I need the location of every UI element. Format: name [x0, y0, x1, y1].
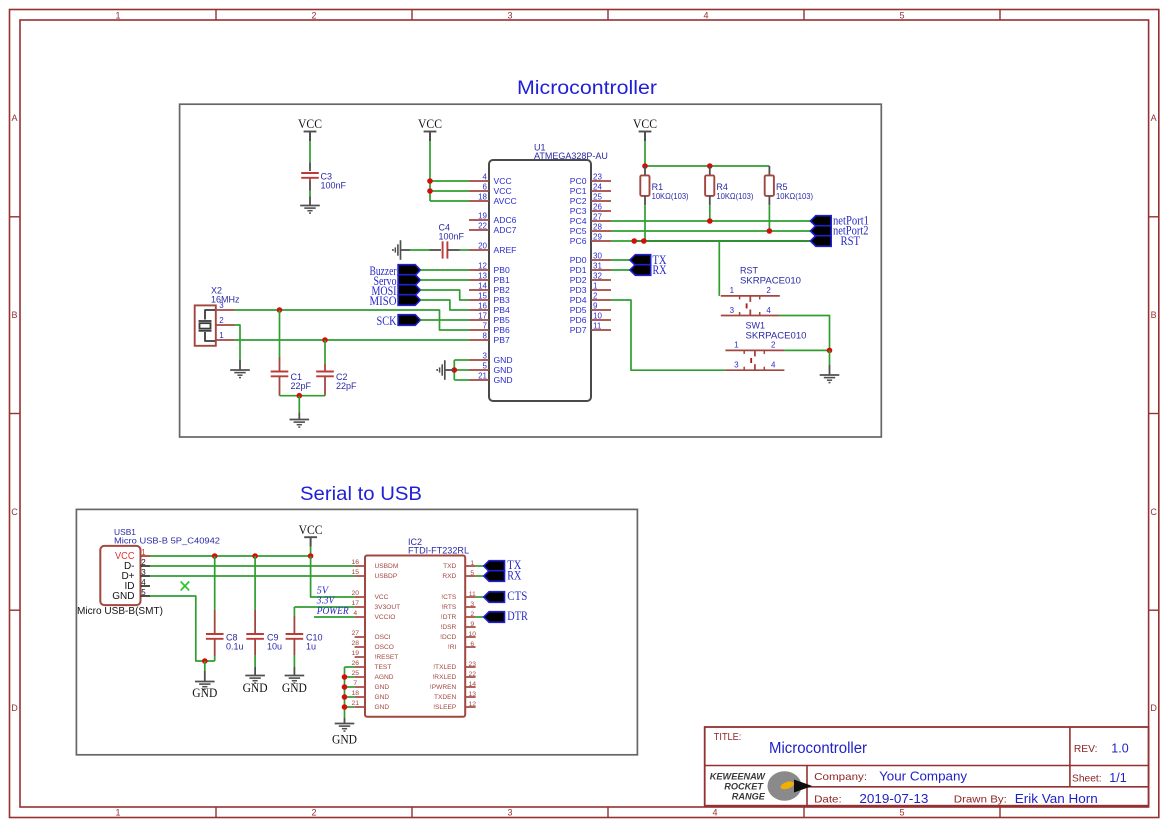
svg-text:KEWEENAW: KEWEENAW [710, 772, 766, 782]
svg-text:5: 5 [470, 570, 474, 577]
pin 21 GND of U1 [469, 379, 489, 381]
svg-text:VCC: VCC [494, 186, 512, 196]
wire SCK to PB5 [420, 319, 469, 321]
wire VCC to R1/R4/R5 tops [644, 141, 646, 166]
pin 9 !DSR of IC2 [465, 626, 475, 628]
wire Buzzer to PB0 [420, 269, 469, 271]
svg-text:10: 10 [469, 631, 477, 638]
svg-text:5: 5 [899, 808, 904, 818]
svg-text:2: 2 [470, 611, 474, 618]
pin 25 AGND of IC2 [355, 676, 365, 678]
svg-text:5: 5 [899, 10, 904, 20]
svg-text:AREF: AREF [494, 245, 517, 255]
svg-text:TXD: TXD [443, 563, 456, 570]
svg-text:FTDI-FT232RL: FTDI-FT232RL [408, 545, 469, 555]
node junction AGND [342, 674, 348, 680]
svg-text:22pF: 22pF [291, 381, 312, 391]
svg-text:3: 3 [734, 361, 739, 370]
svg-text:15: 15 [352, 569, 360, 576]
svg-text:2: 2 [766, 286, 771, 295]
svg-text:D: D [1150, 703, 1157, 713]
wire VCC to U1 VCC/AVCC pins [429, 141, 431, 201]
svg-text:2: 2 [311, 808, 316, 818]
pin 15 PB3 of U1 [469, 299, 489, 301]
node junction SW1-RST ground [827, 348, 833, 354]
svg-text:RXD: RXD [442, 573, 456, 580]
svg-text:27: 27 [593, 213, 602, 222]
svg-text:PD5: PD5 [570, 305, 587, 315]
svg-text:30: 30 [593, 252, 602, 261]
pin 2 !DTR of IC2 [465, 616, 475, 618]
pin 27 OSCI of IC2 [355, 636, 365, 638]
node junction C9 top [252, 553, 258, 559]
node junction R4 top [707, 163, 713, 169]
svg-text:15: 15 [478, 292, 487, 301]
svg-text:7: 7 [483, 322, 488, 331]
pin 29 PC6 of U1 [591, 240, 611, 242]
pin 5 GND of USB1 [141, 595, 151, 597]
net flag DTR [484, 612, 505, 623]
svg-text:!PWREN: !PWREN [430, 684, 457, 691]
svg-text:POWER: POWER [316, 605, 349, 617]
svg-text:TXDEN: TXDEN [434, 694, 457, 701]
wire ground stub below C8 [204, 661, 206, 671]
pin 3 !RTS of IC2 [465, 606, 475, 608]
svg-text:21: 21 [478, 372, 487, 381]
pin 2 D- of USB1 [141, 565, 151, 567]
wire U1 GND pins to ground [453, 360, 455, 380]
wire !CTS to CTS flag [476, 596, 484, 598]
ground (U1 GND pins) [444, 360, 446, 380]
wire VCC to FT232 VCC pin (5V net) [311, 556, 355, 597]
svg-text:!RXLED: !RXLED [432, 674, 456, 681]
svg-text:!SLEEP: !SLEEP [433, 704, 457, 711]
svg-text:7: 7 [353, 680, 357, 687]
wire POWER net stub to VCCIO [314, 616, 355, 618]
pin 5 GND of U1 [469, 369, 489, 371]
net flag RX (U1) [630, 265, 651, 276]
svg-text:CTS: CTS [507, 588, 527, 603]
svg-text:GND: GND [375, 704, 390, 711]
svg-text:1: 1 [593, 282, 598, 291]
net flag RST [810, 236, 831, 247]
svg-text:DTR: DTR [507, 608, 528, 623]
svg-text:PB6: PB6 [494, 325, 510, 335]
svg-text:PC3: PC3 [570, 206, 587, 216]
svg-text:MISO: MISO [370, 294, 397, 308]
wire VCC to C3 [309, 141, 311, 163]
svg-text:VCC: VCC [418, 117, 442, 131]
svg-text:PD0: PD0 [570, 255, 587, 265]
pin 19 ADC6 of U1 [469, 219, 489, 221]
svg-text:3V3OUT: 3V3OUT [375, 604, 401, 611]
svg-text:22: 22 [469, 671, 477, 678]
svg-text:ADC6: ADC6 [494, 215, 517, 225]
svg-text:20: 20 [478, 242, 487, 251]
svg-text:12: 12 [469, 701, 477, 708]
svg-text:VCC: VCC [494, 176, 512, 186]
svg-text:Date:: Date: [814, 794, 842, 806]
pin 20 VCC of IC2 [355, 596, 365, 598]
svg-text:SCK: SCK [377, 314, 397, 328]
svg-text:AGND: AGND [375, 674, 394, 681]
svg-text:11: 11 [469, 591, 476, 598]
pin 12 PB0 of U1 [469, 269, 489, 271]
svg-text:23: 23 [593, 173, 602, 182]
pin 1 VCC of USB1 [141, 555, 151, 557]
svg-text:3: 3 [470, 601, 474, 608]
wire IC2 ground trunk [344, 667, 346, 718]
pin 1 of X2 [216, 339, 235, 341]
wire USB VCC rail [150, 555, 311, 557]
svg-text:18: 18 [352, 690, 360, 697]
wire MOSI to PB3 [420, 290, 469, 300]
svg-text:26: 26 [593, 203, 602, 212]
svg-text:2: 2 [219, 316, 224, 325]
wire C4 to AREF pin [447, 249, 460, 251]
svg-text:Microcontroller: Microcontroller [769, 740, 867, 757]
svg-text:22: 22 [478, 222, 487, 231]
svg-text:22pF: 22pF [336, 381, 357, 391]
svg-text:TITLE:: TITLE: [714, 732, 742, 743]
svg-text:PB0: PB0 [494, 265, 510, 275]
svg-text:SKRPACE010: SKRPACE010 [746, 330, 807, 340]
pin 18 GND of IC2 [355, 696, 365, 698]
svg-text:A: A [1151, 113, 1157, 123]
net flag netPort2 [810, 226, 831, 237]
svg-text:1: 1 [115, 808, 120, 818]
svg-text:PB2: PB2 [494, 285, 510, 295]
svg-text:3: 3 [483, 352, 488, 361]
svg-text:4: 4 [703, 10, 708, 20]
svg-text:PC0: PC0 [570, 176, 587, 186]
pin 2 of X2 [216, 324, 235, 326]
pin 19 !RESET of IC2 [355, 656, 365, 658]
wire PD1 to RX flag [611, 269, 630, 271]
pin 1 TXD of IC2 [465, 565, 475, 567]
svg-text:4: 4 [712, 808, 717, 818]
pin 22 ADC7 of U1 [469, 229, 489, 231]
svg-text:6: 6 [483, 183, 488, 192]
wire PC5 to netPort2 [611, 230, 810, 232]
node junction GND pin21 [342, 704, 348, 710]
wire D- to USBDM [150, 565, 355, 567]
pin 14 !PWREN of IC2 [465, 686, 475, 688]
svg-text:PB4: PB4 [494, 305, 510, 315]
wire X2 pin3 to PB6 (XTAL1 net) [235, 310, 470, 330]
svg-text:25: 25 [352, 670, 360, 677]
svg-text:VCC: VCC [298, 117, 322, 131]
svg-text:TEST: TEST [375, 664, 392, 671]
wire PC6 to RST flag [611, 240, 634, 242]
node junction VCC drop [308, 553, 314, 559]
svg-text:4: 4 [771, 361, 776, 370]
svg-text:PD7: PD7 [570, 325, 587, 335]
svg-text:23: 23 [469, 661, 477, 668]
svg-text:3: 3 [507, 808, 512, 818]
svg-text:10KΩ(103): 10KΩ(103) [716, 192, 753, 201]
pin 4 VCC of U1 [469, 180, 489, 182]
svg-text:B: B [1151, 310, 1157, 320]
svg-text:VCC: VCC [375, 594, 389, 601]
node junction VCC pin6 [427, 188, 433, 194]
pin 11 PD7 of U1 [591, 329, 611, 331]
svg-text:Your Company: Your Company [879, 770, 968, 784]
svg-text:!RI: !RI [448, 644, 457, 651]
svg-text:10KΩ(103): 10KΩ(103) [776, 192, 813, 201]
svg-text:100nF: 100nF [321, 181, 347, 191]
svg-text:10KΩ(103): 10KΩ(103) [652, 192, 689, 201]
svg-text:GND: GND [494, 355, 513, 365]
svg-text:!RTS: !RTS [441, 604, 457, 611]
wire C3 to ground [309, 191, 311, 197]
svg-text:10: 10 [593, 312, 602, 321]
svg-text:A: A [11, 113, 17, 123]
svg-text:USBDP: USBDP [375, 573, 398, 580]
node junction C1-C2 ground [297, 393, 303, 399]
svg-text:RST: RST [841, 234, 861, 248]
svg-text:RX: RX [653, 263, 667, 277]
pin 20 AREF of U1 [469, 249, 489, 251]
svg-text:!RESET: !RESET [375, 654, 399, 661]
pin 3 D+ of USB1 [141, 575, 151, 577]
pin 8 PB7 of U1 [469, 339, 489, 341]
svg-text:RST: RST [740, 266, 759, 276]
ground (C10) [285, 675, 305, 677]
node junction XTAL1 at C1 [277, 307, 283, 313]
svg-text:!DTR: !DTR [441, 614, 457, 621]
net flag CTS [484, 592, 505, 603]
svg-text:16MHz: 16MHz [211, 295, 240, 305]
svg-text:19: 19 [478, 212, 487, 221]
svg-text:25: 25 [593, 193, 602, 202]
pin 18 AVCC of U1 [469, 200, 489, 202]
svg-text:2019-07-13: 2019-07-13 [859, 792, 928, 806]
pin 9 PD5 of U1 [591, 309, 611, 311]
section box: Serial to USB [76, 509, 637, 754]
ground (AREF) [400, 240, 402, 260]
wire !DTR to DTR flag [476, 616, 484, 618]
svg-text:PD6: PD6 [570, 315, 587, 325]
svg-text:PB5: PB5 [494, 315, 510, 325]
ground (below C3) [300, 205, 320, 207]
svg-text:GND: GND [192, 686, 217, 700]
ground (X2 case) [230, 369, 250, 371]
pin 14 PB2 of U1 [469, 289, 489, 291]
svg-text:GND: GND [494, 365, 513, 375]
pin 3 GND of U1 [469, 359, 489, 361]
svg-text:PC2: PC2 [570, 196, 587, 206]
node junction PC6 b [641, 238, 647, 244]
svg-text:21: 21 [352, 700, 360, 707]
pin 11 !CTS of IC2 [465, 596, 475, 598]
svg-text:28: 28 [593, 223, 602, 232]
svg-text:GND: GND [282, 681, 307, 695]
capacitor C2 22pF [324, 340, 326, 364]
wire PD0 to TX flag [611, 259, 630, 261]
no-connect X on ID pin [181, 582, 190, 591]
svg-text:11: 11 [593, 322, 602, 331]
pin 28 PC5 of U1 [591, 230, 611, 232]
svg-text:AVCC: AVCC [494, 196, 517, 206]
resistor R4 10K [709, 166, 711, 175]
svg-text:32: 32 [593, 272, 602, 281]
svg-text:Erik Van Horn: Erik Van Horn [1015, 792, 1098, 806]
wire X2 pin1 to PB7 (XTAL2 net) [235, 339, 470, 341]
wire MISO to PB4 [420, 300, 469, 310]
pin 4 VCCIO of IC2 [355, 616, 365, 618]
svg-text:OSCI: OSCI [375, 634, 391, 641]
svg-text:PD3: PD3 [570, 285, 587, 295]
svg-text:9: 9 [593, 302, 598, 311]
svg-text:1u: 1u [306, 642, 316, 652]
svg-text:GND: GND [112, 591, 134, 602]
wire R4 to PC4 net [709, 205, 711, 221]
ground (C9) [245, 675, 265, 677]
pin 27 PC4 of U1 [591, 220, 611, 222]
svg-text:8: 8 [483, 332, 488, 341]
pin 13 TXDEN of IC2 [465, 696, 475, 698]
svg-text:R1: R1 [652, 182, 664, 192]
wire RXD to RX flag [476, 575, 484, 577]
svg-text:SW1: SW1 [746, 321, 766, 331]
svg-text:26: 26 [352, 660, 360, 667]
ground (SW1) [820, 374, 840, 376]
pin 28 OSCO of IC2 [355, 646, 365, 648]
svg-text:GND: GND [332, 733, 357, 747]
svg-text:14: 14 [469, 681, 477, 688]
svg-text:20: 20 [352, 590, 360, 597]
svg-text:1/1: 1/1 [1109, 771, 1126, 785]
wire USB GND to C8 ground [150, 596, 215, 661]
wire R5 to PC5 net [768, 205, 770, 231]
resistor R1 10K [644, 166, 646, 175]
pin 10 PD6 of U1 [591, 319, 611, 321]
pin 31 PD1 of U1 [591, 269, 611, 271]
net flag TX (U1) [630, 255, 651, 266]
svg-text:VCC: VCC [299, 523, 323, 537]
svg-text:1.0: 1.0 [1111, 742, 1128, 756]
svg-text:24: 24 [593, 183, 602, 192]
pin 30 PD0 of U1 [591, 259, 611, 261]
svg-text:!TXLED: !TXLED [433, 664, 456, 671]
capacitor C3 [301, 172, 319, 174]
svg-text:Micro USB-B(SMT): Micro USB-B(SMT) [77, 606, 163, 617]
node junction GND pin7 [342, 684, 348, 690]
pin 23 PC0 of U1 [591, 180, 611, 182]
svg-text:16: 16 [478, 302, 487, 311]
svg-text:!DCD: !DCD [440, 634, 456, 641]
svg-text:Microcontroller: Microcontroller [517, 77, 658, 99]
svg-text:2: 2 [771, 341, 776, 350]
svg-text:GND: GND [375, 694, 390, 701]
capacitor C1 22pF [279, 310, 281, 357]
svg-text:2: 2 [141, 558, 146, 567]
svg-text:1: 1 [730, 286, 735, 295]
pin 6 VCC of U1 [469, 190, 489, 192]
node junction C8 top [212, 553, 218, 559]
pin 26 TEST of IC2 [355, 666, 365, 668]
svg-text:C: C [1150, 507, 1157, 517]
svg-text:5: 5 [141, 588, 146, 597]
pin 25 PC2 of U1 [591, 200, 611, 202]
svg-text:28: 28 [352, 640, 360, 647]
pin 12 !SLEEP of IC2 [465, 706, 475, 708]
svg-text:17: 17 [478, 312, 487, 321]
svg-text:5: 5 [483, 362, 488, 371]
wire SW1 pin2 to ground [784, 349, 829, 351]
svg-text:4: 4 [353, 610, 357, 617]
svg-text:100nF: 100nF [439, 232, 465, 242]
svg-text:12: 12 [478, 262, 487, 271]
svg-text:29: 29 [593, 233, 602, 242]
net flag RX (IC2) [484, 571, 505, 582]
wire X2 pin2 to ground [235, 325, 241, 360]
svg-text:Sheet:: Sheet: [1072, 773, 1102, 785]
node junction PC6 a [631, 238, 637, 244]
svg-text:SKRPACE010: SKRPACE010 [740, 275, 801, 285]
svg-text:13: 13 [469, 691, 477, 698]
svg-text:4: 4 [483, 173, 488, 182]
node junction PC4-R4 [707, 218, 713, 224]
svg-text:13: 13 [478, 272, 487, 281]
node junction PC5-R5 [767, 228, 773, 234]
svg-text:1: 1 [734, 341, 739, 350]
svg-text:PD1: PD1 [570, 265, 587, 275]
svg-text:PC5: PC5 [570, 226, 587, 236]
node junction USB ground [202, 658, 208, 664]
resistor R5 10K [768, 166, 770, 175]
svg-text:31: 31 [593, 262, 602, 271]
svg-text:PC1: PC1 [570, 186, 587, 196]
pin 24 PC1 of U1 [591, 190, 611, 192]
pin 21 GND of IC2 [355, 706, 365, 708]
svg-text:R4: R4 [716, 182, 728, 192]
svg-text:RX: RX [507, 568, 521, 582]
svg-text:ROCKET: ROCKET [724, 782, 764, 792]
pin 10 !DCD of IC2 [465, 636, 475, 638]
svg-text:C: C [11, 507, 18, 517]
svg-text:19: 19 [352, 650, 360, 657]
capacitor C4 [442, 241, 444, 258]
pin 16 PB4 of U1 [469, 309, 489, 311]
pin 2 PD4 of U1 [591, 299, 611, 301]
wire ground to C4 [401, 249, 411, 251]
svg-text:PB7: PB7 [494, 335, 510, 345]
wire C10 to 3V3OUT (3.3V net) [294, 606, 354, 608]
svg-text:3: 3 [507, 10, 512, 20]
pin 32 PD2 of U1 [591, 279, 611, 281]
wire PC6 to RST switch pin1 [718, 241, 720, 296]
svg-text:PC6: PC6 [570, 236, 587, 246]
node junction U1 GND [452, 367, 458, 373]
pin 16 USBDM of IC2 [355, 565, 365, 567]
pin 4 ID of USB1 [141, 585, 151, 587]
svg-text:!CTS: !CTS [441, 594, 457, 601]
svg-text:17: 17 [352, 600, 360, 607]
svg-text:USBDM: USBDM [375, 563, 399, 570]
capacitor C9 10u [254, 556, 256, 610]
ground (IC2) [335, 723, 355, 725]
svg-text:3: 3 [730, 306, 735, 315]
svg-text:2: 2 [311, 10, 316, 20]
node junction XTAL2 at C2 [322, 337, 328, 343]
pin 15 USBDP of IC2 [355, 575, 365, 577]
svg-text:2: 2 [593, 292, 598, 301]
svg-text:VCC: VCC [633, 117, 657, 131]
pin 17 PB5 of U1 [469, 319, 489, 321]
svg-text:REV:: REV: [1074, 743, 1098, 755]
